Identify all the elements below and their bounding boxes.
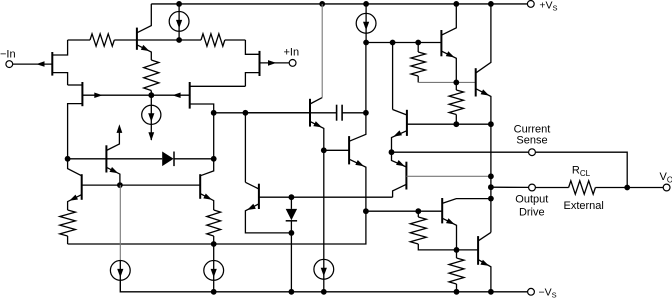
node B (cascode gate bias) — [148, 92, 154, 98]
wire Q1 base through to node A — [137, 39, 179, 41]
node F (Q4 collector) — [211, 156, 217, 162]
node C (J3 source / Q4 collector) — [211, 110, 217, 116]
wire node C down to Q4 collector node — [213, 113, 215, 159]
node U (current sense tap) — [389, 149, 395, 155]
wire J2 gate to bias node with arrow — [82, 94, 151, 96]
node on -VS rail at R9 — [454, 289, 460, 295]
node on +VS rail at I2 — [363, 1, 369, 7]
wire J3 source node line — [214, 112, 310, 114]
wire output drive line — [491, 186, 529, 188]
resistor RCL external — [569, 181, 596, 194]
diode D1 — [162, 152, 173, 167]
current source I5 — [204, 261, 224, 281]
transistor Q12 (upper output) — [475, 68, 477, 96]
node N (Q7 emitter / Q13 base) — [363, 208, 369, 214]
node H (R5 / I5 tap) — [211, 241, 217, 247]
terminal Output Drive — [529, 184, 536, 191]
transistor Q10 (current limit lower) — [405, 162, 407, 190]
transistor Q1 (NPN bias) — [136, 28, 138, 50]
current source I1 — [169, 12, 189, 32]
power rail +VS wire — [151, 3, 527, 5]
wire Q6 base to node L — [259, 196, 292, 198]
wire node E row to diode D1 — [68, 158, 163, 160]
terminal VO — [663, 184, 670, 191]
svg-text:Current: Current — [514, 123, 551, 135]
current source I2 — [356, 13, 376, 33]
resistor R9 — [449, 258, 464, 284]
wire R1 to Q1 base — [114, 39, 137, 41]
wire node J up to node O — [365, 43, 367, 113]
wire top bias line left of R1 — [68, 39, 90, 41]
resistor R1 — [90, 34, 114, 46]
wire Q7 base from node K — [324, 149, 349, 151]
node on -VS rail at I6 — [321, 289, 327, 295]
resistor R4 (Q3 emitter) — [60, 210, 76, 236]
resistor R3 (Q1 emitter) — [144, 60, 159, 91]
node E (left mirror node) — [65, 156, 71, 162]
wire lower bias rail — [68, 211, 366, 244]
diode D2 — [290, 197, 292, 209]
node R (Q11 emitter / R7 top) — [453, 80, 459, 86]
power rail -VS wire — [120, 280, 527, 292]
resistor R8 — [410, 217, 426, 244]
wire current sense line — [392, 151, 529, 153]
svg-text:Drive: Drive — [519, 207, 545, 219]
resistor R5 (Q4 emitter) — [207, 210, 221, 236]
resistor R6 — [411, 52, 425, 76]
resistor R2 — [201, 34, 225, 46]
current source I4 — [110, 261, 130, 281]
wire Q14 base line — [457, 249, 479, 251]
wire node D line to Q5 base and cap — [245, 112, 336, 114]
node on +VS rail at I1 — [176, 1, 182, 7]
node S (R7 bottom) — [453, 121, 459, 127]
wire Q9 base line — [407, 123, 491, 125]
wire +In gate lead with P-JFET arrow — [260, 62, 290, 64]
wire node P to Q11 base — [393, 42, 442, 44]
wire R2 to J4 drain corner — [225, 39, 246, 41]
node O (comp top) — [363, 40, 369, 46]
terminal +In — [289, 60, 296, 67]
wire R6 bottom to Q12 base line — [418, 81, 476, 83]
JFET J1 (-In input) — [51, 52, 53, 76]
wire Q2 emitter chain down to I4 — [119, 185, 121, 261]
transistor Q13 (lower driver) — [441, 198, 443, 223]
node M (D2 cathode) — [289, 230, 295, 236]
node on -VS rail at I5 — [211, 289, 217, 295]
wire node O to node P — [366, 42, 393, 44]
transistor Q9 (current limit upper) — [406, 110, 408, 136]
node Z (R8 top) — [415, 208, 421, 214]
wire node P down to Q9 collector — [392, 43, 394, 110]
svg-text:External: External — [564, 200, 604, 212]
current source I3 with open sink arrow — [142, 105, 161, 124]
node G (Q2 emitter on base line) — [117, 182, 123, 188]
svg-text:−In: −In — [0, 48, 16, 60]
wire Output Drive to RCL — [536, 187, 569, 189]
node AA (Q13 emitter / R9 top) — [454, 247, 460, 253]
transistor Q6 (clamp) — [258, 184, 260, 209]
JFET J3 (cascode, +In side) — [189, 82, 191, 109]
wire Q13 base line — [366, 210, 442, 212]
node T (output top) — [488, 121, 494, 127]
node on -VS rail at Q14 emitter — [488, 289, 494, 295]
transistor Q5 (gain stage) — [309, 99, 311, 127]
current source I6 — [314, 259, 334, 279]
node L (D2 anode) — [289, 194, 295, 200]
node Q (R6 top) — [415, 40, 421, 46]
node W (output drive tap) — [488, 184, 494, 190]
svg-text:Output: Output — [515, 194, 548, 206]
wire C1 to node J — [342, 112, 366, 114]
node P (Q9 collector tap) — [390, 40, 396, 46]
node V (Q10 base on output) — [488, 173, 494, 179]
capacitor C1 (compensation) — [336, 105, 338, 121]
transistor Q14 (lower output) — [477, 236, 479, 265]
JFET J4 (+In input) — [259, 51, 261, 76]
node Y (Q13 collector tap) — [488, 196, 494, 202]
wire node M to -VS rail — [290, 233, 292, 292]
JFET J2 (cascode, -In side) — [81, 82, 83, 106]
transistor Q2 (Vbe bias) — [105, 145, 107, 172]
terminal -VS — [528, 288, 535, 295]
node X (VO / sense join) — [624, 185, 630, 191]
transistor Q7 (driver bias) — [348, 136, 350, 164]
wire RCL to VO — [595, 187, 663, 189]
wire Q10 base to output node — [406, 175, 491, 177]
wire node L to Q10 collector path — [291, 196, 392, 198]
node on -VS rail at Q6 emitter branch — [289, 289, 295, 295]
wire J3 gate to bias node with arrow — [151, 94, 189, 96]
wire mirror base line — [82, 184, 201, 186]
terminal -In — [6, 61, 13, 68]
node J (comp / Q7 collector) — [363, 110, 369, 116]
node on +VS rail at Q11 collector — [453, 1, 459, 7]
transistor Q11 (upper driver) — [440, 30, 442, 56]
wire output node vertical — [490, 124, 492, 232]
node on +VS rail at Q12 collector — [488, 1, 494, 7]
resistor R7 — [449, 90, 463, 115]
transistor Q3 (mirror left) — [81, 174, 83, 200]
terminal Current Sense — [529, 149, 536, 156]
terminal +VS — [527, 1, 534, 8]
wire -In gate lead with P-JFET arrow — [13, 63, 53, 65]
wire D1 cathode to node F — [174, 158, 214, 160]
wire node A to R2 — [179, 39, 201, 41]
wire node D down to Q6 collector — [244, 113, 246, 183]
wire current sense to VO branch — [536, 152, 628, 187]
svg-text:Sense: Sense — [516, 135, 547, 147]
svg-text:+In: +In — [284, 46, 300, 58]
node D (Q6 collector branch) — [243, 110, 249, 116]
node K (Q5 emitter / Q7 base tap) — [321, 147, 327, 153]
wire node K down through I6 to -VS — [323, 150, 325, 259]
node A (Q1 base / I1) — [176, 37, 182, 43]
transistor Q4 (mirror right) — [199, 174, 201, 199]
node on +VS rail at Q5 collector — [319, 1, 325, 7]
